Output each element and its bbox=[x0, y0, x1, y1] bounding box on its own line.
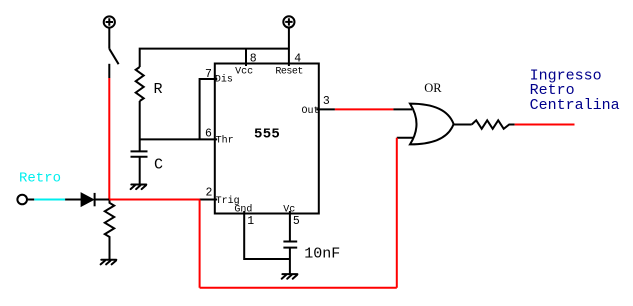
svg-text:7: 7 bbox=[205, 68, 212, 81]
power V+ supply 2 bbox=[283, 16, 294, 27]
wire: V+1 down to switch bbox=[108, 28, 110, 49]
OR gate U2 bbox=[410, 104, 454, 145]
ground (10nF) bbox=[282, 274, 298, 279]
wire: V+2 down to pin 4 bbox=[288, 28, 290, 67]
wire: output red bbox=[515, 124, 575, 126]
svg-text:1: 1 bbox=[247, 215, 254, 228]
svg-text:OR: OR bbox=[424, 81, 442, 95]
pin 2 stub bbox=[200, 199, 218, 201]
wire: cyan segment bbox=[34, 199, 65, 201]
switch S1 bbox=[109, 49, 118, 78]
diode D1 bbox=[81, 193, 95, 206]
capacitor 10nF bbox=[283, 242, 297, 274]
svg-text:Reset: Reset bbox=[275, 67, 303, 78]
wire: red vertical to OR bottom input bbox=[396, 138, 398, 288]
resistor R out bbox=[472, 120, 515, 129]
ground (C) bbox=[131, 185, 147, 190]
svg-text:5: 5 bbox=[293, 215, 300, 228]
ground (pull-down) bbox=[101, 260, 117, 265]
svg-text:4: 4 bbox=[294, 52, 301, 65]
svg-text:2: 2 bbox=[206, 187, 213, 200]
svg-text:Dis: Dis bbox=[215, 74, 233, 86]
capacitor C bbox=[131, 151, 148, 184]
terminal: Retro input bbox=[17, 195, 27, 205]
svg-text:3: 3 bbox=[323, 95, 330, 108]
svg-text:Thr: Thr bbox=[216, 134, 234, 146]
wire: junction to Trig pin (red) bbox=[109, 199, 199, 201]
power V+ supply 1 bbox=[104, 16, 115, 27]
wire: terminal lead black bbox=[27, 199, 34, 201]
wire: OR top input black bbox=[393, 108, 412, 110]
resistor R bbox=[136, 67, 144, 101]
svg-text:Out: Out bbox=[302, 106, 320, 117]
wire: to diode bbox=[65, 199, 81, 201]
pin 1 wire bbox=[244, 211, 290, 259]
wire: pin3 to OR gate (red) bbox=[335, 108, 394, 110]
wire: red bottom horizontal bbox=[200, 287, 397, 289]
svg-text:Centralina: Centralina bbox=[530, 97, 620, 114]
resistor pull-down bbox=[105, 200, 114, 260]
pin 8 stub bbox=[245, 49, 247, 66]
wire: top rail bbox=[140, 49, 289, 67]
wire: R bottom to C top (through Thr junction) bbox=[139, 101, 141, 151]
op-amp / IC U1 555 body bbox=[215, 64, 319, 214]
pin 3 stub bbox=[316, 108, 335, 110]
svg-text:10nF: 10nF bbox=[304, 245, 340, 262]
wire: diode to junction bbox=[95, 199, 110, 201]
wire: Dis stub and vertical bbox=[200, 79, 218, 139]
wire: switch to input junction (red) bbox=[108, 78, 110, 200]
svg-text:C: C bbox=[154, 156, 163, 173]
pin 5 stub bbox=[289, 211, 291, 242]
wire: OR bottom input black bbox=[397, 137, 414, 139]
svg-text:555: 555 bbox=[254, 126, 280, 142]
wire: OR output bbox=[454, 124, 472, 126]
wire: Thr horizontal bbox=[140, 138, 218, 140]
wire: red trig vertical bbox=[199, 200, 201, 288]
svg-text:6: 6 bbox=[205, 128, 212, 141]
svg-text:Retro: Retro bbox=[19, 171, 61, 187]
svg-text:R: R bbox=[154, 81, 163, 98]
svg-text:Vcc: Vcc bbox=[235, 67, 253, 78]
svg-text:8: 8 bbox=[250, 52, 257, 65]
